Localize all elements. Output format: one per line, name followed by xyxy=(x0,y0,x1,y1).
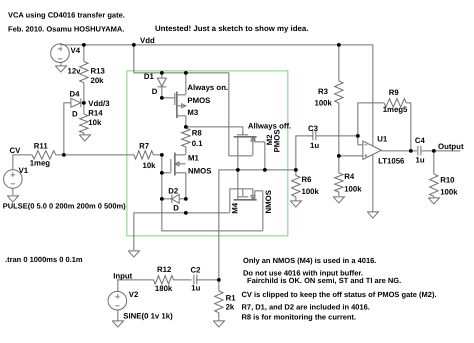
svg-text:NMOS: NMOS xyxy=(188,167,211,176)
svg-text:R8 is for monitoring the curre: R8 is for monitoring the current. xyxy=(242,313,357,322)
svg-text:2k: 2k xyxy=(226,303,235,312)
svg-text:D: D xyxy=(152,87,158,96)
svg-text:1u: 1u xyxy=(191,284,200,293)
svg-text:D4: D4 xyxy=(70,90,81,99)
svg-text:R12: R12 xyxy=(157,265,172,274)
svg-text:Output: Output xyxy=(438,142,464,151)
svg-text:1meg: 1meg xyxy=(30,159,51,168)
svg-text:R7: R7 xyxy=(139,141,149,150)
svg-text:R1: R1 xyxy=(226,294,237,303)
svg-text:D1: D1 xyxy=(144,72,155,81)
svg-text:R9: R9 xyxy=(389,88,400,97)
svg-text:CV is clipped to keep the off: CV is clipped to keep the off status of … xyxy=(242,290,437,299)
svg-text:D: D xyxy=(173,204,179,213)
svg-text:NMOS: NMOS xyxy=(264,190,273,213)
svg-text:100k: 100k xyxy=(440,188,458,197)
svg-text:Feb. 2010. Osamu HOSHUYAMA.: Feb. 2010. Osamu HOSHUYAMA. xyxy=(8,24,124,33)
svg-text:V2: V2 xyxy=(129,290,139,299)
svg-text:VCA using CD4016 transfer gate: VCA using CD4016 transfer gate. xyxy=(8,10,125,19)
svg-text:1u: 1u xyxy=(416,156,425,165)
svg-text:Vdd: Vdd xyxy=(140,36,155,45)
svg-text:Vdd/3: Vdd/3 xyxy=(88,99,110,108)
svg-text:U1: U1 xyxy=(377,135,388,144)
svg-text:PULSE(0 5.0 0 200m 200m 0 500m: PULSE(0 5.0 0 200m 200m 0 500m) xyxy=(3,202,126,211)
svg-text:0.1: 0.1 xyxy=(192,139,204,148)
svg-text:Fairchild is OK. ON semi, ST: Fairchild is OK. ON semi, ST and TI are … xyxy=(247,276,401,285)
svg-text:CV: CV xyxy=(10,146,22,155)
svg-text:Untested! Just a sketch to sh: Untested! Just a sketch to show my idea. xyxy=(155,24,308,33)
svg-text:1meg5: 1meg5 xyxy=(383,105,408,114)
svg-text:10k: 10k xyxy=(143,161,157,170)
svg-text:D2: D2 xyxy=(168,186,179,195)
svg-text:R4: R4 xyxy=(344,172,355,181)
svg-text:100k: 100k xyxy=(315,99,333,108)
svg-text:R7, D1, and D2 are included in: R7, D1, and D2 are included in 4016. xyxy=(242,303,370,312)
svg-text:R8: R8 xyxy=(192,129,203,138)
svg-text:R14: R14 xyxy=(88,109,103,118)
svg-text:R11: R11 xyxy=(34,142,49,151)
svg-text:10k: 10k xyxy=(88,118,102,127)
svg-text:C4: C4 xyxy=(415,136,426,145)
svg-text:100k: 100k xyxy=(344,184,362,193)
svg-text:Only an NMOS (M4) is used in a: Only an NMOS (M4) is used in a 4016. xyxy=(243,256,376,265)
svg-text:R6: R6 xyxy=(302,175,313,184)
svg-text:Always on.: Always on. xyxy=(187,83,228,92)
svg-text:.tran 0 1000ms 0 0.1m: .tran 0 1000ms 0 0.1m xyxy=(5,255,83,264)
svg-text:M1: M1 xyxy=(188,154,199,163)
svg-text:M3: M3 xyxy=(187,108,198,117)
svg-text:D: D xyxy=(72,110,78,119)
svg-text:PMOS: PMOS xyxy=(272,129,281,152)
svg-text:PMOS: PMOS xyxy=(187,96,210,105)
svg-text:100k: 100k xyxy=(302,187,320,196)
svg-text:M4: M4 xyxy=(230,202,239,213)
svg-text:Allways off.: Allways off. xyxy=(248,121,291,130)
svg-text:180k: 180k xyxy=(155,284,173,293)
svg-text:R10: R10 xyxy=(440,175,455,184)
svg-text:V4: V4 xyxy=(71,46,81,55)
svg-text:R13: R13 xyxy=(91,67,106,76)
svg-text:C3: C3 xyxy=(308,124,319,133)
svg-text:SINE(0 1v 1k): SINE(0 1v 1k) xyxy=(123,312,173,321)
svg-text:12v: 12v xyxy=(68,67,82,76)
svg-text:R3: R3 xyxy=(318,87,329,96)
svg-text:1u: 1u xyxy=(310,141,319,150)
svg-text:C2: C2 xyxy=(191,265,202,274)
svg-text:Input: Input xyxy=(113,272,132,281)
svg-text:20k: 20k xyxy=(91,76,105,85)
svg-text:LT1056: LT1056 xyxy=(378,156,405,165)
svg-text:V1: V1 xyxy=(19,166,29,175)
